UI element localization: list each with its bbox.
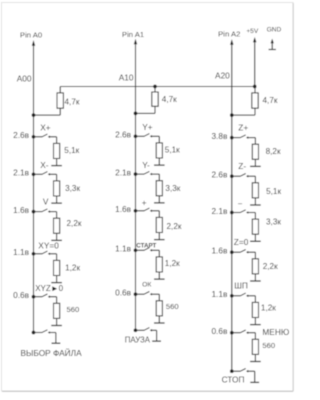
svg-text:2.1в: 2.1в <box>115 167 132 177</box>
junction 2.6в node (col 2) <box>134 134 138 138</box>
junction 2.1в node (col 3) <box>230 211 234 215</box>
svg-text:ШП: ШП <box>234 280 248 290</box>
wire switch X+ to resistor <box>50 136 57 138</box>
junction 1.6в node (col 1) <box>32 210 36 214</box>
svg-text:V: V <box>43 197 49 207</box>
pushbutton switch СТАРТ <box>136 249 145 251</box>
svg-text:X+: X+ <box>40 123 51 133</box>
svg-text:0.6в: 0.6в <box>211 326 228 336</box>
+5V supply rail <box>60 86 255 88</box>
pushbutton switch МЕНЮ <box>232 332 241 334</box>
svg-text:2,2к: 2,2к <box>167 222 182 231</box>
svg-text:Z=0: Z=0 <box>234 237 249 247</box>
svg-text:Z+: Z+ <box>238 123 248 133</box>
pushbutton switch Y+ <box>136 135 145 137</box>
pushbutton switch ОК <box>136 293 145 295</box>
svg-text:5,1к: 5,1к <box>165 146 180 155</box>
junction 2.6в node (col 3) <box>230 174 234 178</box>
node Pin A2 arrow terminal <box>230 39 233 45</box>
junction bottom node (col 1) <box>32 331 36 335</box>
resistor 5,1к (Y+ branch) <box>158 136 160 143</box>
ground (XYZ►0 branch) <box>56 318 58 325</box>
wire switch Z+ to resistor <box>248 137 255 139</box>
svg-text:5,1к: 5,1к <box>64 146 79 155</box>
svg-text:Pin A0: Pin A0 <box>20 31 42 40</box>
wire switch + to resistor <box>152 210 160 212</box>
svg-text:A00: A00 <box>17 73 32 83</box>
ground (X+ branch) <box>56 159 58 166</box>
pushbutton switch XY=0 <box>34 253 43 255</box>
junction on +5V rail (col A1) <box>153 85 157 89</box>
svg-text:СТОП: СТОП <box>222 375 245 385</box>
pushbutton switch ПАУЗА <box>136 329 145 331</box>
wire switch ШП to resistor <box>248 295 255 297</box>
junction 1.1в node (col 3) <box>230 294 234 298</box>
svg-text:XYZ►0: XYZ►0 <box>35 284 63 293</box>
wire switch Y+ to resistor <box>152 135 160 137</box>
ground (ОК branch) <box>158 316 160 323</box>
ground (ПАУЗА branch) <box>156 330 158 341</box>
svg-text:1.6в: 1.6в <box>13 205 30 215</box>
wire switch ОК to resistor <box>152 293 160 295</box>
pushbutton switch X+ <box>34 136 43 138</box>
svg-text:Y+: Y+ <box>142 122 153 132</box>
wire switch Z=0 to resistor <box>248 251 255 253</box>
svg-text:СТАРТ: СТАРТ <box>136 243 156 250</box>
svg-text:5,1к: 5,1к <box>266 187 281 196</box>
wire switch СТАРТ to resistor <box>152 249 160 251</box>
wire rail to resistor R3 <box>254 87 256 93</box>
pushbutton switch − <box>232 212 241 214</box>
svg-text:1,2к: 1,2к <box>65 264 80 273</box>
svg-text:Pin A1: Pin A1 <box>122 30 144 39</box>
svg-text:−: − <box>238 198 243 208</box>
ground (X- branch) <box>56 196 58 203</box>
wire switch ПАУЗА to ground <box>152 329 157 331</box>
wire switch ВЫБОР ФАЙЛА to ground <box>50 332 56 334</box>
svg-text:ОК: ОК <box>142 282 151 289</box>
wire switch МЕНЮ to resistor <box>248 332 255 334</box>
wire switch СТОП to ground <box>248 370 255 372</box>
ground (− branch) <box>254 234 256 241</box>
node Pin A0 arrow terminal <box>32 40 35 46</box>
resistor 5,1к (Z- branch) <box>254 176 256 183</box>
ground (Y+ branch) <box>158 158 160 165</box>
svg-text:2.1в: 2.1в <box>211 206 228 216</box>
ground (Z- branch) <box>254 198 256 205</box>
svg-text:2.6в: 2.6в <box>115 130 132 140</box>
pushbutton switch + <box>136 210 145 212</box>
junction 1.1в node (col 2) <box>134 248 138 252</box>
svg-text:1.1в: 1.1в <box>13 247 30 257</box>
wire column line Pin A0 <box>33 45 35 333</box>
wire switch V to resistor <box>50 211 57 213</box>
svg-text:A20: A20 <box>215 71 230 81</box>
svg-text:2,2к: 2,2к <box>263 262 278 271</box>
pushbutton switch Y- <box>136 173 145 175</box>
svg-text:GND: GND <box>267 26 282 33</box>
pushbutton switch ШП <box>232 295 241 297</box>
wire switch XY=0 to resistor <box>50 253 57 255</box>
svg-text:1,2к: 1,2к <box>261 303 276 312</box>
svg-text:Z-: Z- <box>238 161 246 171</box>
junction bottom node (col 2) <box>134 328 138 332</box>
resistor 8,2к (Z+ branch) <box>254 138 256 145</box>
junction node A10 <box>134 112 138 116</box>
svg-text:ПАУЗА: ПАУЗА <box>125 336 151 345</box>
GND terminal symbol <box>271 39 274 44</box>
junction 0.6в node (col 2) <box>134 292 138 296</box>
ground (ВЫБОР ФАЙЛА branch) <box>55 333 57 344</box>
ground (СТОП branch) <box>254 371 256 382</box>
resistor 1,2к (ШП branch) <box>254 296 256 303</box>
svg-text:560: 560 <box>262 341 275 350</box>
wire switch X- to resistor <box>50 173 57 175</box>
wire column line Pin A1 <box>135 43 137 330</box>
ground (XY=0 branch) <box>56 276 58 283</box>
junction 3.8в node (col 3) <box>230 136 234 140</box>
resistor 2,2к (V branch) <box>56 212 58 219</box>
junction 1.6в node (col 2) <box>134 209 138 213</box>
resistor 5,1к (X+ branch) <box>56 137 58 144</box>
ground (Z+ branch) <box>254 159 256 166</box>
+5V arrow terminal <box>253 37 256 42</box>
node Pin A1 arrow terminal <box>134 39 137 45</box>
svg-text:4,7к: 4,7к <box>65 97 80 106</box>
svg-text:0.6в: 0.6в <box>115 288 132 298</box>
svg-text:2,2к: 2,2к <box>67 219 82 228</box>
resistor 560 (XYZ►0 branch) <box>56 297 58 304</box>
junction 0.6в node (col 1) <box>32 295 36 299</box>
junction bottom node (col 3) <box>230 369 234 373</box>
svg-text:1,2к: 1,2к <box>165 259 180 268</box>
svg-text:8,2к: 8,2к <box>266 147 281 156</box>
pushbutton switch СТОП <box>232 370 241 372</box>
pushbutton switch Z+ <box>232 137 241 139</box>
svg-text:Pin A2: Pin A2 <box>218 30 240 39</box>
resistor 1,2к (XY=0 branch) <box>56 254 58 261</box>
pushbutton switch Z=0 <box>232 251 241 253</box>
wire rail to resistor R2 <box>154 87 156 93</box>
pull-up resistor R1 4,7к <box>57 93 63 108</box>
junction 2.1в node (col 2) <box>134 172 138 176</box>
svg-text:0.6в: 0.6в <box>13 290 30 300</box>
svg-text:4,7к: 4,7к <box>263 96 278 105</box>
ground (Y- branch) <box>158 196 160 203</box>
svg-text:Y-: Y- <box>142 160 150 170</box>
svg-text:2.6в: 2.6в <box>211 170 228 180</box>
wire switch − to resistor <box>248 212 255 214</box>
resistor 3,3к (X- branch) <box>56 174 58 181</box>
svg-text:560: 560 <box>67 305 80 314</box>
wire resistor R1 to node A00 <box>59 108 61 115</box>
junction 2.1в node (col 1) <box>32 172 36 176</box>
wire switch Y- to resistor <box>152 173 160 175</box>
wire switch XYZ►0 to resistor <box>50 296 57 298</box>
junction 2.6в node (col 1) <box>32 135 36 139</box>
junction node A20 <box>230 113 234 117</box>
junction on +5V rail (col A2) <box>253 85 257 89</box>
ground (ШП branch) <box>254 318 256 325</box>
svg-text:3.8в: 3.8в <box>211 131 228 141</box>
resistor 3,3к (Y- branch) <box>158 174 160 181</box>
ground (МЕНЮ branch) <box>254 354 256 361</box>
svg-text:3,3к: 3,3к <box>266 218 281 227</box>
pull-up resistor R3 4,7к <box>252 93 258 108</box>
wire column line Pin A2 <box>231 44 233 372</box>
svg-text:+5V: +5V <box>246 28 259 35</box>
resistor 560 (ОК branch) <box>158 294 160 301</box>
pushbutton switch X- <box>34 173 43 175</box>
ground (СТАРТ branch) <box>158 272 160 279</box>
pushbutton switch ВЫБОР ФАЙЛА <box>34 332 43 334</box>
svg-text:1.6в: 1.6в <box>115 204 132 214</box>
pull-up resistor R2 4,7к <box>152 92 158 106</box>
svg-text:XY=0: XY=0 <box>38 241 59 251</box>
svg-text:4,7к: 4,7к <box>162 95 177 104</box>
wire rail to resistor R1 <box>59 87 61 93</box>
wire resistor R2 to node A10 <box>154 106 156 113</box>
svg-text:2.1в: 2.1в <box>13 168 30 178</box>
resistor 2,2к (+ branch) <box>158 211 160 218</box>
svg-text:A10: A10 <box>119 72 134 82</box>
svg-text:X-: X- <box>40 160 49 170</box>
resistor 3,3к (− branch) <box>254 213 256 220</box>
junction 1.1в node (col 1) <box>32 252 36 256</box>
junction node A00 <box>32 113 36 117</box>
wire resistor R3 to node A20 <box>254 108 256 115</box>
resistor 1,2к (СТАРТ branch) <box>158 250 160 257</box>
wire switch Z- to resistor <box>248 175 255 177</box>
ground (Z=0 branch) <box>254 274 256 281</box>
svg-text:1.1в: 1.1в <box>115 244 132 254</box>
svg-text:1.1в: 1.1в <box>211 289 228 299</box>
resistor 560 (МЕНЮ branch) <box>254 333 256 340</box>
svg-text:2.6в: 2.6в <box>13 130 30 140</box>
svg-text:1.6в: 1.6в <box>211 246 228 256</box>
ground (+ branch) <box>158 233 160 240</box>
junction 0.6в node (col 3) <box>230 331 234 335</box>
svg-text:ВЫБОР ФАЙЛА: ВЫБОР ФАЙЛА <box>21 347 83 358</box>
svg-text:МЕНЮ: МЕНЮ <box>262 327 289 337</box>
svg-text:3,3к: 3,3к <box>65 184 80 193</box>
junction 1.6в node (col 3) <box>230 250 234 254</box>
resistor 2,2к (Z=0 branch) <box>254 252 256 259</box>
pushbutton switch Z- <box>232 175 241 177</box>
svg-text:3,3к: 3,3к <box>165 184 180 193</box>
ground (V branch) <box>56 233 58 240</box>
svg-text:560: 560 <box>166 302 179 311</box>
svg-text:+: + <box>142 197 147 207</box>
pushbutton switch XYZ►0 <box>34 296 43 298</box>
pushbutton switch V <box>34 211 43 213</box>
